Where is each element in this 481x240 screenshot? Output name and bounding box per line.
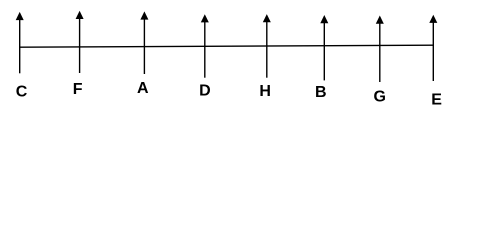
- svg-text:B: B: [315, 84, 327, 101]
- svg-text:G: G: [373, 89, 385, 106]
- arrow A: [140, 11, 148, 74]
- arrow F: [76, 11, 84, 73]
- svg-text:F: F: [73, 81, 83, 98]
- arrow H: [263, 14, 271, 78]
- baseline: [20, 45, 434, 47]
- arrow C: [16, 12, 24, 73]
- svg-text:C: C: [16, 83, 28, 100]
- arrow B: [320, 15, 328, 80]
- arrow G: [376, 16, 384, 83]
- arrow D: [201, 14, 209, 77]
- svg-text:D: D: [199, 82, 211, 99]
- svg-text:E: E: [431, 92, 442, 109]
- svg-text:H: H: [259, 83, 271, 100]
- svg-text:A: A: [137, 80, 149, 97]
- arrow E: [429, 15, 437, 81]
